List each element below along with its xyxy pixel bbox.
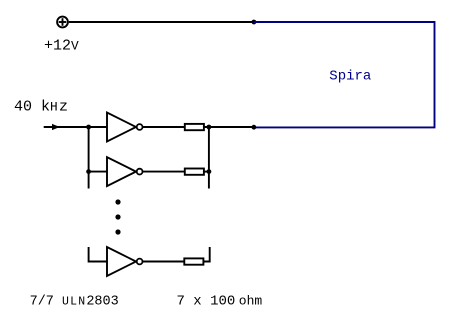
inverter 2 (ULN2803 channel) <box>107 157 143 186</box>
input wire with arrow <box>44 124 89 130</box>
wire: output bus vertical <box>208 127 210 189</box>
wire: R7 output stub <box>203 247 209 262</box>
wire: input bus vertical <box>88 127 90 189</box>
node B junction (input bus top) <box>86 125 91 130</box>
wire: blue loop to Spira (load) <box>254 22 435 127</box>
node D junction (loop return) <box>252 125 257 130</box>
svg-text:+12V: +12V <box>44 38 79 55</box>
inverter 1 (ULN2803 channel) <box>107 113 143 142</box>
wire: node E to inverter 2 input <box>89 171 107 173</box>
wire: inverter 1 output <box>143 126 185 128</box>
wire: input stub to inverter 7 <box>89 247 107 262</box>
wire: supply to node A <box>69 21 254 23</box>
svg-text:7/7 ULN2803: 7/7 ULN2803 <box>30 294 119 309</box>
svg-text:ohm: ohm <box>239 293 263 308</box>
wire: R1 to node C <box>204 126 254 128</box>
inverter 7 (ULN2803 channel) <box>107 247 143 276</box>
ellipsis dots (repeated channels) <box>115 199 120 234</box>
svg-text:40 kHz: 40 kHz <box>14 98 68 115</box>
node E junction (input bus row 2) <box>86 169 91 174</box>
wire: R2 to output bus <box>204 171 209 173</box>
wire: node B to inverter 1 input <box>89 126 107 128</box>
svg-text:7 x 100: 7 x 100 <box>177 293 236 309</box>
svg-text:Spira: Spira <box>329 69 371 85</box>
resistor R7 100ohm <box>184 258 203 264</box>
node A junction <box>252 20 257 25</box>
wire: inverter 7 output <box>143 261 185 263</box>
node C junction (output bus top) <box>207 125 212 130</box>
wire: inverter 2 output <box>143 171 185 173</box>
resistor R1 100ohm <box>185 124 204 130</box>
node F junction (output bus row 2) <box>207 169 212 174</box>
+12V supply terminal <box>57 17 68 28</box>
resistor R2 100ohm <box>185 169 204 175</box>
